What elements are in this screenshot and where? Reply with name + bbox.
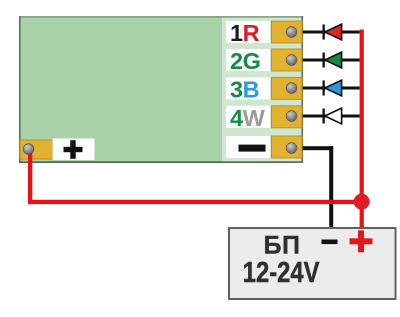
wire terminal 3B to LED bus — [296, 87, 360, 90]
wire minus terminal to PSU — [292, 146, 334, 228]
wire terminal 4W to LED bus — [296, 115, 360, 118]
svg-text:12-24V: 12-24V — [243, 256, 320, 289]
LED D3 blue — [323, 80, 342, 96]
label box 1R — [226, 20, 270, 46]
PSU plus symbol — [350, 230, 373, 252]
solder pad minus — [272, 136, 303, 158]
svg-text:2G: 2G — [230, 48, 260, 74]
terminal connector panel — [222, 18, 302, 161]
LED D1 red — [323, 24, 342, 40]
plus output pad — [20, 140, 53, 159]
label box 4W — [226, 105, 270, 131]
terminal screw 3B — [286, 83, 297, 94]
controller board PCB — [19, 16, 303, 163]
svg-text:3B: 3B — [230, 77, 259, 103]
wire terminal 2G to LED bus — [296, 59, 360, 62]
terminal screw minus — [286, 143, 297, 154]
PSU minus symbol — [322, 240, 338, 245]
wire terminal 1R to LED bus — [296, 31, 360, 34]
PSU voltage label 12-24V — [243, 256, 320, 289]
label box minus — [226, 136, 270, 158]
red plus bus to LEDs — [360, 30, 364, 229]
LED D4 white — [323, 108, 342, 124]
junction node — [354, 194, 370, 210]
label box 2G — [226, 48, 270, 74]
PSU label BP — [264, 232, 301, 260]
label box 3B — [226, 77, 270, 103]
solder pad 4W — [272, 106, 303, 128]
power supply unit box — [229, 228, 396, 299]
plus label box — [53, 139, 95, 161]
terminal screw 2G — [286, 55, 297, 66]
svg-text:1R: 1R — [230, 20, 260, 46]
svg-text:4W: 4W — [230, 105, 266, 131]
terminal screw 1R — [286, 27, 297, 38]
solder pad 3B — [272, 77, 303, 99]
red wire plus terminal to junction — [28, 149, 362, 204]
solder pad 2G — [272, 49, 303, 71]
terminal screw plus — [23, 144, 34, 155]
terminal screw 4W — [286, 111, 297, 122]
solder pad 1R — [272, 21, 303, 43]
LED D2 green — [323, 52, 342, 68]
